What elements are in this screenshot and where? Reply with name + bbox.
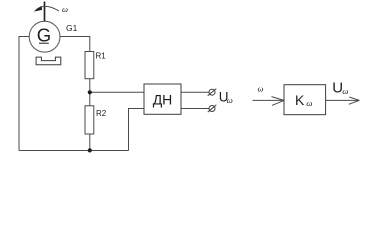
wire: DN box to bottom terminal <box>181 108 209 110</box>
rotation arc arrow <box>36 6 59 11</box>
wire: R2 bottom to bottom rail <box>89 134 91 151</box>
wire: R1 bottom to R2 top <box>89 79 91 106</box>
junction node: R2 bottom on rail <box>88 148 92 152</box>
svg-text:ω: ω <box>342 86 348 96</box>
wire: bottom rail up to DN box bottom input <box>129 109 145 151</box>
output terminal bottom <box>208 105 217 112</box>
svg-text:K: K <box>295 92 305 108</box>
generator letter G with underline <box>37 24 51 45</box>
transfer block K omega <box>284 85 326 115</box>
generator shaft <box>44 2 46 22</box>
svg-text:G: G <box>37 24 51 45</box>
svg-text:ω: ω <box>258 84 264 94</box>
block diagram output arrow <box>326 97 360 104</box>
output terminal top <box>208 89 217 96</box>
junction node: R1/R2 divider tap <box>88 90 92 94</box>
permanent-magnet stator symbol under generator <box>36 57 61 65</box>
wire: left vertical from generator to bottom rail <box>19 37 29 151</box>
wire: divider junction to DN box top input <box>90 91 144 93</box>
wire: bottom rail <box>19 150 129 152</box>
svg-text:R2: R2 <box>96 109 107 118</box>
block diagram input arrow <box>253 97 285 106</box>
label K omega <box>295 92 313 108</box>
wire: generator right to R1 top <box>60 37 90 52</box>
generator G1 circle <box>29 21 60 52</box>
label U omega (divider output) <box>219 90 233 106</box>
resistor R2 <box>85 106 94 134</box>
svg-text:R1: R1 <box>96 52 107 61</box>
svg-text:ω: ω <box>306 98 312 108</box>
svg-text:ДН: ДН <box>153 91 173 107</box>
svg-text:ω: ω <box>227 95 233 105</box>
rotation arrowhead <box>34 6 43 12</box>
svg-text:ω: ω <box>62 4 68 14</box>
svg-text:G1: G1 <box>66 23 78 33</box>
wire: DN box to top terminal <box>181 91 209 93</box>
voltage divider block DN <box>144 84 181 114</box>
label U omega (block output) <box>332 80 348 97</box>
resistor R1 <box>85 52 94 79</box>
